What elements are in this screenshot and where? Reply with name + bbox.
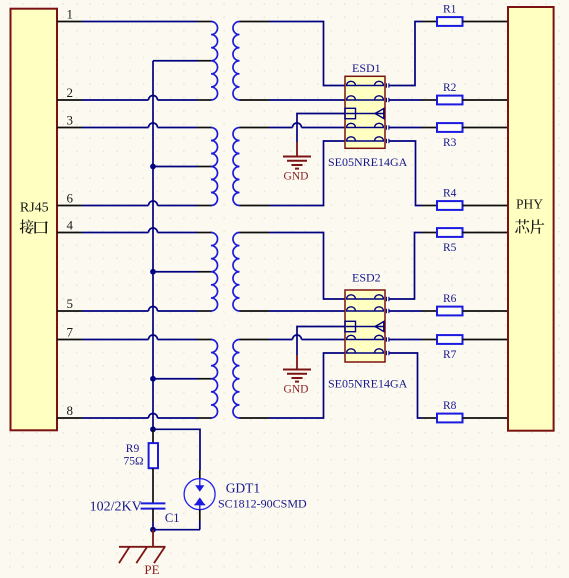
ESD chip U1 ESD1 SE05NRE14GA xyxy=(328,61,408,169)
svg-text:SE05NRE14GA: SE05NRE14GA xyxy=(328,376,408,390)
resistor R5 xyxy=(422,228,509,254)
svg-text:SC1812-90CSMD: SC1812-90CSMD xyxy=(218,496,307,510)
transformer T2 secondary winding xyxy=(233,128,239,206)
wire T3 secondary bottom to ESD2 pin2 xyxy=(269,310,345,312)
wire ESD to R6 xyxy=(389,310,422,312)
svg-text:R1: R1 xyxy=(443,4,457,16)
gas discharge tube GDT1 SC1812-90CSMD xyxy=(184,470,307,530)
RJ45 pin 7 xyxy=(57,324,82,339)
wire pin2 row to transformer xyxy=(82,96,212,100)
transformer T1 secondary pins xyxy=(240,22,270,101)
ground GND2 xyxy=(283,355,311,395)
wire node to GDT1 top xyxy=(153,429,200,470)
resistor R9 75ohm xyxy=(124,429,159,503)
svg-text:R2: R2 xyxy=(443,82,457,94)
svg-text:GND: GND xyxy=(284,170,309,182)
protective earth PE xyxy=(119,530,166,577)
svg-text:C1: C1 xyxy=(165,511,180,525)
svg-text:3: 3 xyxy=(67,112,74,127)
transformer T4 center tap wire xyxy=(153,378,211,380)
transformer T2 secondary pins xyxy=(240,128,270,206)
RJ45 pin 6 xyxy=(57,190,82,205)
svg-text:R5: R5 xyxy=(443,242,457,254)
svg-text:SE05NRE14GA: SE05NRE14GA xyxy=(328,155,408,169)
wire T2 secondary bottom to ESD1 pin5 xyxy=(269,141,345,206)
junction C1 bottom node xyxy=(150,527,156,533)
capacitor C1 102/2KV xyxy=(90,500,180,530)
transformer T4 primary winding xyxy=(211,340,218,419)
svg-text:R7: R7 xyxy=(443,349,457,361)
ground GND1 xyxy=(283,142,311,182)
svg-text:R8: R8 xyxy=(443,400,457,412)
wire ESD to R7 xyxy=(389,339,422,341)
RJ45 connector block xyxy=(11,9,58,431)
resistor R6 xyxy=(422,293,509,315)
wire ESD1 gnd pin to ground xyxy=(297,114,345,143)
svg-text:R4: R4 xyxy=(443,188,457,200)
wire pin3 row to transformer xyxy=(82,123,212,128)
transformer T1 primary winding xyxy=(211,22,218,101)
resistor R8 xyxy=(422,400,509,422)
transformer T4 secondary pins xyxy=(240,340,270,419)
transformer T2 primary winding xyxy=(211,128,218,206)
wire ESD to R4 xyxy=(389,141,422,206)
wire pin1 row to transformer xyxy=(82,21,212,23)
transformer T1 center tap wire xyxy=(153,60,211,62)
wire pin5 row to transformer xyxy=(82,307,212,312)
RJ45 pin 2 xyxy=(57,85,82,100)
wire T3 secondary top to ESD2 pin1 xyxy=(269,233,345,300)
svg-text:1: 1 xyxy=(67,6,74,21)
junction R9 top node xyxy=(150,426,156,432)
RJ45 pin 4 xyxy=(57,217,82,232)
wire T4 secondary bottom to ESD2 pin5 xyxy=(269,353,345,418)
svg-text:4: 4 xyxy=(67,217,74,232)
wire center-tap bus vertical xyxy=(152,61,154,430)
svg-text:7: 7 xyxy=(67,324,74,339)
svg-text:5: 5 xyxy=(67,296,74,311)
junction T2 center tap xyxy=(150,164,156,170)
transformer T3 primary winding xyxy=(211,233,218,312)
transformer T4 secondary winding xyxy=(233,340,240,419)
transformer T3 secondary pins xyxy=(240,233,270,312)
resistor R4 xyxy=(422,188,509,210)
svg-text:2: 2 xyxy=(67,85,74,100)
svg-text:RJ45: RJ45 xyxy=(20,200,49,215)
svg-text:R9: R9 xyxy=(126,443,140,455)
resistor R7 xyxy=(422,335,509,361)
transformer T3 secondary winding xyxy=(233,233,240,312)
wire ESD to R2 xyxy=(389,99,422,101)
wire ESD to R3 xyxy=(389,127,422,129)
RJ45 pin 1 xyxy=(57,6,82,21)
junction T3 center tap xyxy=(150,269,156,275)
svg-text:PHY: PHY xyxy=(516,197,543,212)
ESD chip U2 ESD2 SE05NRE14GA xyxy=(328,270,408,390)
wire pin7 row to transformer xyxy=(82,335,212,340)
wire ESD to R5 xyxy=(389,233,422,300)
svg-text:ESD1: ESD1 xyxy=(352,61,381,75)
svg-text:GND: GND xyxy=(284,383,309,395)
wire T1 secondary top to ESD1 pin1 xyxy=(269,22,345,86)
RJ45 pin 8 xyxy=(57,403,82,418)
resistor R2 xyxy=(422,82,509,104)
junction T4 center tap xyxy=(150,376,156,382)
PHY chip block xyxy=(508,7,554,431)
svg-text:PE: PE xyxy=(144,562,159,577)
svg-text:ESD2: ESD2 xyxy=(352,270,381,284)
wire ESD to R8 xyxy=(389,353,422,418)
wire ESD to R1 xyxy=(389,22,422,86)
transformer T2 center tap wire xyxy=(153,166,211,168)
resistor R3 xyxy=(422,123,509,149)
wire pin4 row to transformer xyxy=(82,228,212,233)
wire T2 secondary top to ESD1 pin4 xyxy=(269,123,345,128)
wire pin8 row to transformer xyxy=(82,414,212,418)
svg-text:GDT1: GDT1 xyxy=(226,481,261,496)
svg-text:R3: R3 xyxy=(443,137,457,149)
wire ESD2 gnd pin to ground xyxy=(297,327,345,356)
svg-text:6: 6 xyxy=(67,190,74,205)
transformer T3 center tap wire xyxy=(153,271,211,273)
wire T4 secondary top to ESD2 pin4 xyxy=(269,335,345,340)
resistor R1 xyxy=(422,4,509,26)
RJ45 pin 5 xyxy=(57,296,82,311)
wire GDT1 bottom to C1 bottom xyxy=(153,529,200,531)
svg-text:75Ω: 75Ω xyxy=(124,455,144,467)
RJ45 pin 3 xyxy=(57,112,82,127)
svg-text:8: 8 xyxy=(67,403,74,418)
svg-text:102/2KV: 102/2KV xyxy=(90,500,142,515)
svg-text:R6: R6 xyxy=(443,293,457,305)
transformer T1 secondary winding xyxy=(233,22,240,101)
wire T1 secondary bottom to ESD1 pin2 xyxy=(269,99,345,101)
wire pin6 row to transformer xyxy=(82,201,212,206)
